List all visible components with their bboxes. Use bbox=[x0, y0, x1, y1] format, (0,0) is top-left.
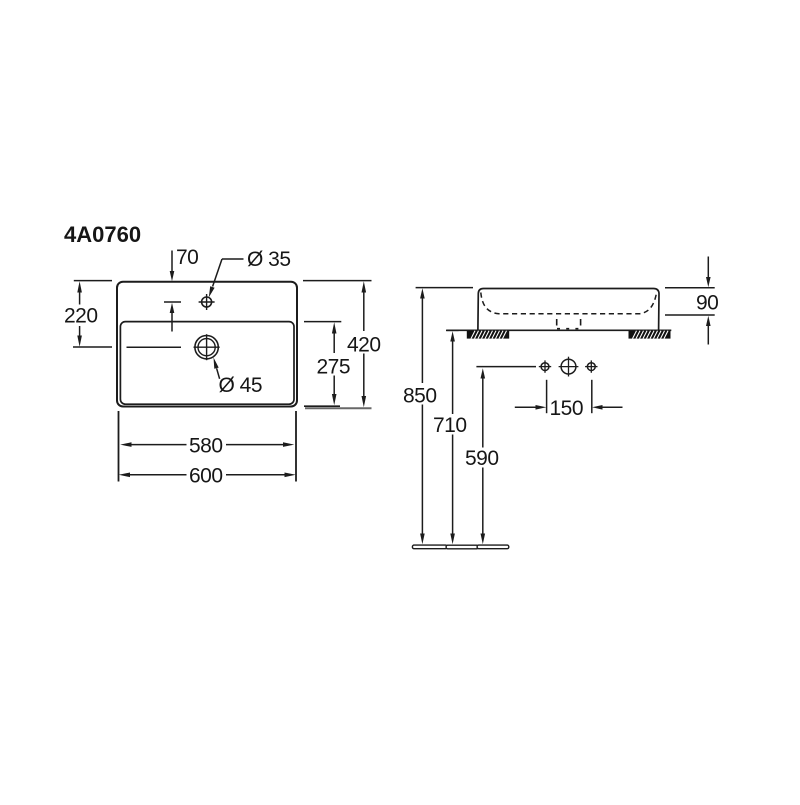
dimension 580/600 left extension line bbox=[118, 411, 120, 482]
svg-text:600: 600 bbox=[189, 464, 223, 487]
svg-text:4A0760: 4A0760 bbox=[64, 222, 141, 247]
dimension text 420 bbox=[347, 333, 381, 356]
drain hole centerline bbox=[127, 346, 182, 348]
faucet hole centerline bbox=[164, 301, 181, 303]
dimension text Ø 35 bbox=[247, 248, 291, 271]
dimension 420 line with arrows bbox=[362, 281, 367, 407]
dimension text 850 bbox=[403, 384, 437, 407]
dimension 150 left extension line bbox=[546, 380, 548, 413]
faucet hole Ø35 bbox=[199, 294, 215, 310]
svg-text:220: 220 bbox=[64, 304, 98, 327]
drain outline dashed (front view) bbox=[557, 319, 581, 329]
dimension text 220 bbox=[64, 304, 98, 327]
dimension 850 line with arrows bbox=[420, 288, 425, 544]
svg-text:850: 850 bbox=[403, 384, 437, 407]
left mounting hatch bbox=[467, 331, 509, 339]
svg-text:420: 420 bbox=[347, 333, 381, 356]
svg-text:590: 590 bbox=[465, 447, 499, 470]
dimension 420 extension line bottom bbox=[305, 407, 372, 409]
dimension 580 line with arrows bbox=[120, 442, 294, 447]
dimension text Ø 45 bbox=[219, 374, 263, 397]
svg-text:90: 90 bbox=[696, 291, 718, 314]
svg-text:Ø 35: Ø 35 bbox=[247, 248, 291, 271]
dimension text 275 bbox=[317, 355, 351, 378]
dimension 275 extension line top bbox=[304, 321, 341, 323]
dimension 220 line with arrows bbox=[77, 281, 82, 347]
dimension 580/600 right extension line bbox=[295, 411, 297, 482]
dimension 275 extension line bottom bbox=[304, 405, 340, 407]
washbasin inner basin rim (top view) bbox=[120, 322, 294, 405]
countertop line bbox=[447, 329, 672, 331]
dimension 420 extension line top bbox=[303, 280, 372, 282]
mounting hole left bbox=[539, 360, 551, 372]
dimension text 150 bbox=[550, 397, 584, 420]
dimension 70 lower arrow bbox=[170, 303, 175, 332]
basin profile (front view) bbox=[478, 289, 659, 331]
dimension text 590 bbox=[465, 447, 499, 470]
dimension text 600 bbox=[189, 464, 223, 487]
mounting holes centerline bbox=[476, 366, 536, 368]
floor slab right bbox=[477, 545, 509, 549]
leader line Ø45 bbox=[214, 358, 220, 379]
svg-text:275: 275 bbox=[317, 355, 351, 378]
leader line Ø35 bbox=[209, 259, 244, 297]
washbasin outer rectangle (top view) bbox=[117, 282, 297, 407]
svg-text:Ø 45: Ø 45 bbox=[219, 374, 263, 397]
dimension text 70 bbox=[176, 246, 198, 269]
dimension 150 right extension line bbox=[591, 380, 593, 413]
svg-text:580: 580 bbox=[189, 435, 223, 458]
dimension 90 extension line top bbox=[665, 287, 715, 289]
model label 4A0760 bbox=[64, 222, 141, 247]
dimension 150 left arrow bbox=[515, 405, 547, 410]
basin inner profile dashed bbox=[481, 293, 657, 314]
dimension 90 lower arrow bbox=[706, 316, 711, 345]
dimension 275 line with arrows bbox=[332, 322, 337, 405]
dimension 850 extension line top bbox=[416, 287, 473, 289]
dimension 90 upper arrow bbox=[706, 257, 711, 288]
mounting hole center bbox=[559, 357, 579, 377]
dimension text 580 bbox=[189, 435, 223, 458]
dimension 710 line with arrows bbox=[450, 331, 455, 544]
svg-text:150: 150 bbox=[550, 397, 584, 420]
svg-text:710: 710 bbox=[433, 414, 467, 437]
svg-text:70: 70 bbox=[176, 246, 198, 269]
dimension text 90 bbox=[696, 291, 718, 314]
dimension text 710 bbox=[433, 414, 467, 437]
floor slab left bbox=[412, 545, 447, 549]
dimension 220 extension line top bbox=[74, 280, 112, 282]
dimension 220 extension line bottom bbox=[73, 346, 112, 348]
dimension 710 extension line top bbox=[446, 329, 459, 331]
dimension 90 extension line bottom bbox=[665, 314, 715, 316]
floor slab middle bbox=[446, 545, 478, 549]
dimension 70 upper arrow bbox=[170, 251, 175, 282]
dimension 590 line with arrows bbox=[481, 368, 486, 544]
right mounting hatch bbox=[629, 331, 671, 339]
dimension 150 right arrow bbox=[592, 405, 622, 410]
drain hole Ø45 bbox=[194, 334, 220, 360]
mounting hole right bbox=[585, 360, 597, 372]
dimension 600 line with arrows bbox=[119, 473, 296, 478]
